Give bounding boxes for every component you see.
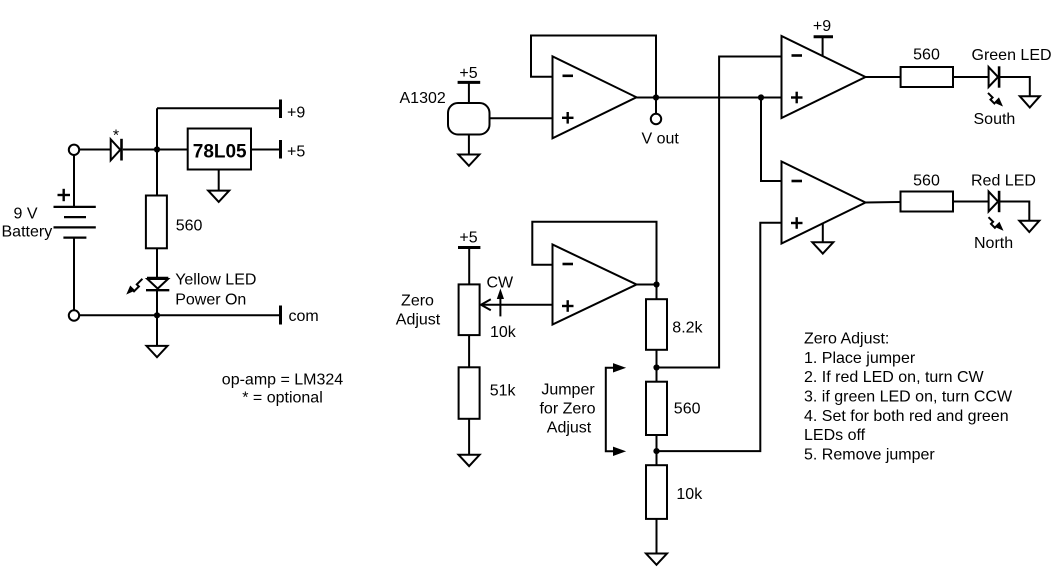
feedback wire U1 -in to output [531,36,656,98]
svg-text:560: 560 [674,401,701,418]
svg-text:for Zero: for Zero [539,401,595,418]
junction node B (560/10k) [653,448,659,454]
potentiometer 10k body [459,284,480,335]
op-amp U4 red comparator [782,162,866,244]
resistor 560 divider [646,382,667,435]
battery B1 9V plates [54,207,96,238]
battery positive terminal circle [69,145,79,155]
wire yellow LED to com rail [156,291,158,316]
wire node B to U4 +in [657,223,782,451]
terminal +5 above pot [458,246,480,249]
svg-text:560: 560 [176,217,203,234]
wire 560 to yellow LED [156,248,158,277]
terminal +9 [279,100,282,119]
wire red LED to gnd [1000,202,1029,221]
wire 78L05 out to +5 terminal [251,149,281,151]
svg-text:com: com [289,308,319,325]
wire A1302 gnd stem [468,135,470,155]
terminal com [279,306,282,325]
ground under A1302 [458,155,479,166]
ground under 78L05 [208,191,229,202]
battery plus sign [58,189,71,201]
resistor 560 green [901,67,953,87]
wire com gnd stem [156,315,158,346]
svg-text:Yellow LED: Yellow LED [175,271,256,288]
svg-text:Red LED: Red LED [971,172,1036,189]
ground after red LED [1019,221,1039,232]
svg-text:LEDs off: LEDs off [804,427,866,444]
terminal V out circle [651,114,661,124]
svg-text:8.2k: 8.2k [672,319,703,336]
resistor 10k divider [646,465,667,519]
svg-text:South: South [974,111,1016,128]
wire U1 output run to U2 +in [637,97,782,99]
svg-text:3. if green LED on, turn CCW: 3. if green LED on, turn CCW [804,389,1013,406]
ground under 10k [646,554,667,565]
svg-text:1. Place jumper: 1. Place jumper [804,350,916,367]
wire +9 rail vertical [156,108,158,195]
junction U2 output node [653,281,659,287]
svg-text:10k: 10k [490,324,517,341]
junction node +9 rail [154,146,160,152]
svg-text:560: 560 [913,173,940,190]
svg-text:+9: +9 [287,104,305,121]
svg-text:Zero: Zero [401,293,434,310]
wire U4 out to 560 [866,201,901,204]
red LED [989,191,1000,212]
wire U4 gnd stem [822,223,824,243]
wire V out stub [655,98,657,114]
yellow LED D2 (power on) [146,278,169,290]
svg-text:*: * [113,128,119,145]
light arrow of green LED [988,93,1002,106]
voltage regulator 78L05 [188,129,251,170]
svg-text:Adjust: Adjust [396,312,441,329]
svg-text:+5: +5 [459,230,477,247]
svg-text:560: 560 [913,47,940,64]
resistor 51k [459,367,480,419]
wire 560 to red LED [953,201,989,203]
svg-text:Jumper: Jumper [541,382,595,399]
resistor 560 (LED dropper) [146,196,167,249]
wire node A to U3 -in [657,57,782,368]
wire 560 to green LED [953,76,989,78]
svg-text:+9: +9 [813,18,831,35]
wire battery+ vertical [73,155,75,206]
wire battery- vertical [73,238,75,310]
svg-text:2. If red LED on, turn CW: 2. If red LED on, turn CW [804,369,985,386]
wire 51k gnd stem [468,419,470,455]
jumper bracket with arrows [606,364,625,456]
wire +5 to pot [468,248,470,285]
svg-text:51k: 51k [490,382,517,399]
wire pot to 51k [468,335,470,367]
battery negative terminal circle [69,310,79,320]
wire 10k gnd stem [656,519,658,554]
svg-text:+5: +5 [287,143,305,160]
op-amp U1 buffer [553,56,637,138]
+9 supply to U3 [822,37,824,57]
light arrow of yellow LED [127,279,142,294]
svg-text:V out: V out [642,131,680,148]
CW direction arrow [498,290,504,316]
ground at com node [147,346,168,357]
wire U2 output to divider [637,285,657,300]
green LED [989,66,1000,87]
wire A1302 out to op-amp U1 +in [490,117,553,119]
hall sensor A1302 [448,103,490,135]
wire battery+ to diode anode [80,149,111,151]
svg-text:78L05: 78L05 [193,141,247,162]
wire 560 to 10k [656,435,658,465]
junction U1 out to U4 -in [758,94,764,100]
svg-text:A1302: A1302 [400,90,446,107]
svg-text:Green LED: Green LED [972,47,1052,64]
svg-text:Adjust: Adjust [547,420,592,437]
resistor 8.2k [646,299,667,350]
terminal +5 [279,140,282,159]
wire to +9 terminal [157,107,281,109]
terminal +5 above A1302 [458,81,481,84]
ground under U4 [812,242,833,253]
wire to U4 -in [761,98,782,182]
svg-text:Battery: Battery [2,223,53,240]
light arrow of red LED [989,217,1003,230]
svg-text:Zero Adjust:: Zero Adjust: [804,331,889,348]
svg-text:North: North [974,235,1013,252]
wire +5 to A1302 [468,82,470,103]
wire U3 out to 560 [866,76,901,78]
svg-text:+5: +5 [459,65,477,82]
wire com rail [80,314,281,316]
wire green LED to gnd [1000,77,1030,96]
junction node A (8.2k/560) [653,364,659,370]
junction V out node [653,94,659,100]
wire diode cathode to node V9 [123,149,188,151]
terminal +9 above U3 [814,35,833,38]
resistor 560 red [901,192,954,212]
junction com node [154,312,160,318]
ground after green LED [1020,96,1040,107]
svg-text:4. Set for both red and green: 4. Set for both red and green [804,408,1009,425]
wire 8.2k to 560 [656,350,658,382]
svg-text:5. Remove jumper: 5. Remove jumper [804,446,935,463]
svg-text:* = optional: * = optional [242,390,323,407]
potentiometer wiper arrow [481,299,553,310]
svg-text:10k: 10k [676,486,703,503]
zero adjust instructions [804,331,1013,464]
op-amp U2 zero adjust [553,245,637,325]
diode D* (optional series diode) [111,139,122,161]
feedback wire U2 -in to output [532,222,656,285]
svg-text:Power On: Power On [175,291,246,308]
op-amp U3 green comparator [782,36,866,118]
svg-text:CW: CW [487,275,515,292]
svg-text:9 V: 9 V [14,205,38,222]
wire 78L05 gnd stem [218,170,220,191]
svg-text:op-amp = LM324: op-amp = LM324 [222,372,344,389]
ground under 51k [459,455,480,466]
